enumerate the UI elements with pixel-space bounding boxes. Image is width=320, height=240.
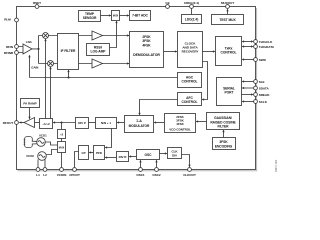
svg-text:RFIN: RFIN [6, 45, 14, 49]
svg-text:VCOIN: VCOIN [57, 173, 67, 177]
wire PFD to CP [89, 152, 93, 154]
wire VCO2 to mux [46, 150, 57, 155]
wire clk div to CLKOUT [182, 155, 190, 167]
pin L2 [43, 168, 47, 172]
svg-text:TxRxCLK: TxRxCLK [259, 40, 273, 44]
svg-text:CONTROL: CONTROL [221, 50, 237, 54]
wire TxRxCLK double arrow [242, 41, 252, 43]
node LNA split [37, 48, 39, 50]
clk div block [168, 148, 182, 159]
pin OSC1 [139, 168, 143, 172]
svg-text:CE: CE [165, 1, 169, 5]
pin VCOIN [60, 168, 64, 172]
wire OSC to div R [129, 156, 136, 158]
svg-text:DIV: DIV [172, 154, 177, 158]
pin RLNA [15, 18, 19, 22]
svg-text:SWD: SWD [259, 58, 267, 62]
svg-text:CPOUT: CPOUT [69, 173, 80, 177]
wire AFC to sigma delta [140, 100, 178, 115]
wire LO I [45, 39, 47, 118]
RSSI log amp block [87, 44, 110, 56]
wire OSC to clk div [160, 153, 167, 155]
wire CREG stub [191, 8, 193, 14]
3FSK encoding block [213, 138, 236, 150]
wire IF filter to limiters [79, 36, 93, 64]
svg-text:IF FILTER: IF FILTER [61, 49, 76, 53]
PA amplifier [24, 118, 35, 128]
svg-text:OSC2: OSC2 [152, 173, 161, 177]
pin SWD [254, 58, 258, 62]
svg-text:VCO1: VCO1 [39, 133, 47, 137]
svg-text:04977-001: 04977-001 [274, 159, 278, 172]
chip outline shadow [18, 8, 257, 171]
pin CREG(1:4) [190, 5, 194, 9]
test mux block [212, 15, 244, 25]
VCO2 oscillator [38, 152, 47, 161]
VCO control block [165, 114, 196, 133]
svg-text:DIV R: DIV R [119, 155, 128, 159]
sigma delta modulator block [125, 116, 154, 133]
AGC control block [178, 73, 202, 88]
wire RSSI to ADC mux [110, 21, 117, 47]
mixer I [43, 33, 49, 39]
wire VCO1 to mux [45, 142, 57, 145]
pin SLE [254, 80, 258, 84]
svg-text:GAIN: GAIN [31, 65, 38, 69]
wire SDATA arrow [242, 87, 253, 89]
wire SREAD arrow [242, 94, 253, 96]
pin CPOUT [73, 168, 77, 172]
divide by 2 block [58, 130, 66, 139]
svg-text:DIV P: DIV P [78, 121, 86, 125]
wire div2 stubs [61, 123, 63, 142]
svg-text:RFINB: RFINB [4, 51, 14, 55]
wire sigma delta to N counter [117, 122, 124, 124]
limiter amp bottom [92, 59, 103, 68]
wire PA to RFOUT [19, 122, 24, 124]
wire test mux to MUXOUT [227, 9, 229, 14]
svg-text:CREG(1:4): CREG(1:4) [184, 1, 199, 5]
svg-text:LDO(1:4): LDO(1:4) [185, 17, 199, 21]
pin TxRxCLK [254, 40, 258, 44]
pin L1 [36, 168, 40, 172]
pin OSC2 [155, 168, 159, 172]
VCO1 oscillator [37, 138, 46, 147]
svg-text:MUX: MUX [113, 15, 119, 18]
chip outline border [17, 7, 256, 170]
wire SCLK arrow [242, 101, 253, 103]
serial port block [217, 78, 242, 106]
IF filter block [58, 34, 79, 70]
LNA amplifier [23, 44, 32, 54]
gaussian raised cosine filter block [207, 113, 240, 130]
wire RFIN RFINB to LNA [18, 47, 23, 53]
svg-text:N/N + 1: N/N + 1 [101, 121, 111, 125]
AFC control block [178, 93, 202, 106]
svg-text:TEST MUX: TEST MUX [219, 18, 236, 22]
wire div P to divide-by-1-2 [53, 122, 75, 124]
7-bit ADC block [130, 11, 151, 21]
svg-text:SENSOR: SENSOR [83, 16, 97, 20]
pin RFINB [15, 51, 19, 55]
PFD block [94, 146, 105, 160]
wire LO Q [50, 67, 52, 118]
svg-text:VCO2: VCO2 [26, 154, 34, 158]
svg-text:CONTROL: CONTROL [182, 100, 198, 104]
vco mux block [58, 142, 66, 153]
external inductor [24, 137, 37, 148]
svg-text:MUX: MUX [59, 147, 65, 150]
divide by 1 or 2 block [40, 119, 53, 129]
wire 3FSK encoding to gaussian [223, 130, 225, 137]
svg-text:÷2: ÷2 [60, 132, 64, 136]
wire N divider to div P [89, 122, 96, 124]
PA ramp block [21, 99, 40, 108]
pin SREAD [254, 93, 258, 97]
N/N+1 divider block [96, 118, 117, 129]
wire mixers to IF filter [49, 36, 58, 64]
svg-text:SLE: SLE [259, 80, 265, 84]
svg-text:L1: L1 [36, 173, 40, 177]
wire SLE arrow [242, 81, 253, 83]
svg-text:PA RAMP: PA RAMP [23, 102, 36, 106]
wire CDR elbow to AFC [202, 62, 207, 100]
svg-text:VCO CONTROL: VCO CONTROL [169, 127, 191, 131]
pin CLKOUT [188, 168, 192, 172]
wire mux to adc [120, 15, 129, 17]
wire divider to PA [35, 122, 40, 124]
wire TxRxDATA double arrow [242, 46, 252, 48]
pin SDATA [254, 86, 258, 90]
CP block [79, 146, 89, 160]
wire limiters to demodulator [103, 36, 130, 64]
svg-text:RECOVERY: RECOVERY [182, 50, 200, 54]
wire VCO control to sigma delta [154, 122, 164, 124]
svg-text:PFD: PFD [96, 151, 103, 155]
mixer Q [48, 61, 54, 67]
svg-text:Σ-Δ: Σ-Δ [136, 119, 142, 123]
wire PA ramp to PA [29, 108, 31, 119]
wire OSC1 stub [140, 160, 142, 167]
svg-text:4FSK: 4FSK [176, 122, 184, 126]
svg-text:7-BIT ADC: 7-BIT ADC [132, 14, 148, 18]
pin SCLK [254, 100, 258, 104]
svg-text:ENCODING: ENCODING [215, 144, 233, 148]
svg-text:SREAD: SREAD [259, 93, 270, 97]
adc mux block [112, 11, 120, 21]
pin CE [166, 5, 170, 9]
wire LNA output split [32, 36, 47, 64]
node LO divider tap [60, 121, 62, 123]
wire L1 L2 stubs [38, 159, 45, 167]
wire demod to CDR [164, 51, 177, 53]
svg-text:MUXOUT: MUXOUT [221, 1, 234, 5]
div R block [117, 152, 129, 162]
wire OSC2 stub [156, 160, 158, 167]
pin RSET [35, 5, 39, 9]
wire gaussian to VCO control [196, 121, 206, 123]
wire N divider to PFD [105, 129, 111, 148]
wire VCOIN stub [61, 153, 63, 168]
wire SWD arrow [242, 59, 253, 61]
svg-text:MODULATOR: MODULATOR [129, 124, 150, 128]
svg-text:CONTROL: CONTROL [182, 80, 198, 84]
TxRx control block [216, 37, 242, 66]
svg-text:CLKOUT: CLKOUT [183, 173, 196, 177]
LDO block [182, 15, 202, 24]
pin MUXOUT [226, 5, 230, 9]
pin RFOUT [15, 121, 19, 125]
clock and data recovery block [178, 32, 203, 68]
svg-text:CP: CP [81, 151, 85, 155]
svg-text:DEMODULATOR: DEMODULATOR [133, 53, 160, 57]
svg-text:TxRxDATA: TxRxDATA [259, 45, 275, 49]
svg-text:SCLK: SCLK [259, 100, 268, 104]
svg-text:FILTER: FILTER [218, 125, 230, 129]
svg-text:LOG AMP: LOG AMP [91, 50, 107, 54]
svg-text:PORT: PORT [225, 90, 234, 94]
pin RFIN [15, 45, 19, 49]
demodulator block [130, 32, 164, 68]
pin TxRxDATA [254, 45, 258, 49]
wire div R to PFD [105, 157, 116, 159]
svg-text:OSC1: OSC1 [136, 173, 145, 177]
svg-text:4FSK: 4FSK [142, 43, 151, 47]
svg-text:÷1/÷2: ÷1/÷2 [42, 122, 50, 126]
svg-text:L2: L2 [43, 173, 47, 177]
temp sensor block [79, 11, 101, 22]
svg-text:RFOUT: RFOUT [3, 121, 14, 125]
svg-text:SDATA: SDATA [259, 86, 270, 90]
node AGC to IF filter [67, 76, 69, 78]
limiter amp top [92, 31, 103, 40]
div P block [76, 118, 89, 129]
svg-text:RSET: RSET [33, 1, 41, 5]
svg-text:OSC: OSC [145, 153, 153, 157]
wire CDR to TxRx control [203, 51, 215, 53]
wire AGC gain line [30, 55, 178, 77]
crystal OSC block [137, 150, 160, 160]
wire temp sensor to mux [101, 15, 111, 17]
svg-text:LNA: LNA [26, 40, 33, 44]
wire CP to CPOUT [75, 152, 79, 168]
